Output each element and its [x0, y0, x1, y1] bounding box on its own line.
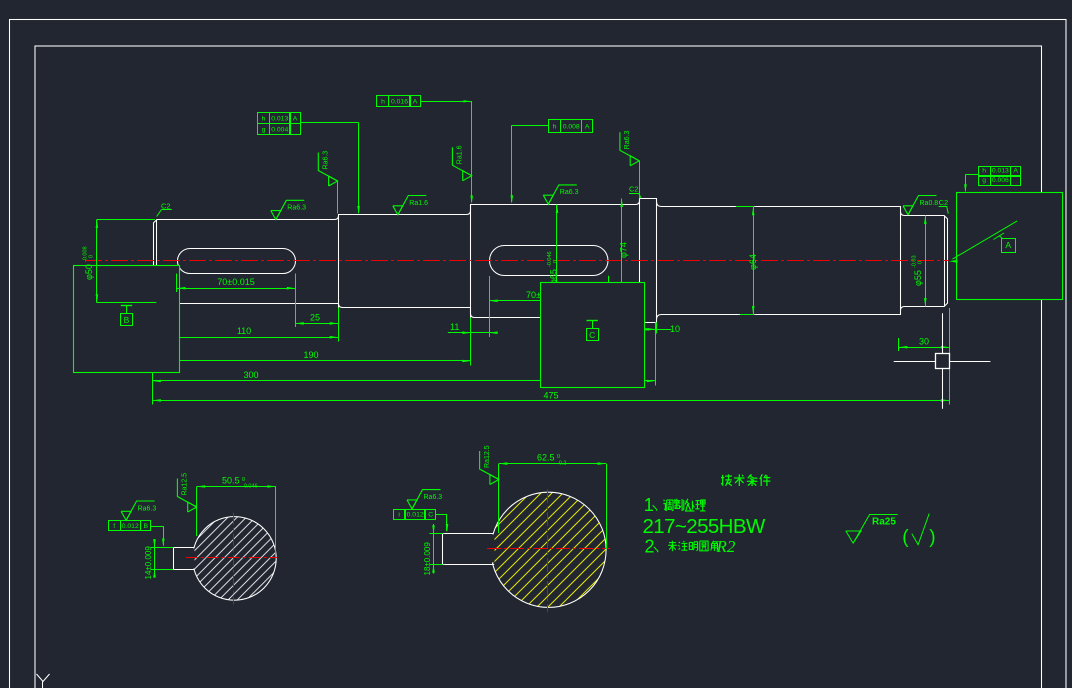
- dim phi50-0.008 (left vertical): [97, 219, 155, 221]
- svg-text:h: h: [381, 99, 385, 106]
- main centerline (red dash-dot): [85, 260, 949, 262]
- svg-text:0.016: 0.016: [391, 99, 408, 106]
- datum box B (left): [74, 266, 180, 373]
- svg-text:18±0.009: 18±0.009: [423, 542, 432, 576]
- svg-text:B: B: [124, 315, 130, 325]
- FCF h 0.013 A / g 0.004: [258, 113, 270, 124]
- section view circle 1 outline: [193, 517, 277, 601]
- svg-text:Ra6.3: Ra6.3: [424, 494, 443, 501]
- svg-text:h: h: [262, 115, 266, 122]
- svg-text:-0.03: -0.03: [912, 255, 918, 268]
- dim phi64: [736, 206, 754, 208]
- svg-text:-0.046: -0.046: [242, 484, 258, 490]
- svg-text:30: 30: [919, 336, 929, 346]
- roughness Ra6.3 section3: [543, 195, 553, 204]
- roughness Ra25 general: [846, 531, 861, 543]
- keyway 1 (rounded slot): [178, 249, 296, 274]
- svg-text:0.012: 0.012: [407, 511, 424, 518]
- svg-text:A: A: [413, 99, 418, 106]
- roughness Ra6.3 step1 rotated: [329, 176, 338, 186]
- svg-text:Ra12.5: Ra12.5: [182, 473, 189, 496]
- svg-text:g: g: [982, 177, 986, 184]
- centerline cross circle 1: [233, 513, 235, 605]
- FCF h 0.013 A / g 0.006 (right): [979, 167, 991, 177]
- svg-text:φ55: φ55: [913, 270, 923, 286]
- step edge S2/S3: [470, 205, 472, 318]
- UCS icon Y label: [37, 674, 50, 682]
- svg-text:f: f: [113, 523, 115, 530]
- keyway notch circle 2: [441, 535, 495, 563]
- svg-text:0.013: 0.013: [271, 115, 288, 122]
- dim 110: [338, 308, 340, 342]
- svg-text:Ra6.3: Ra6.3: [323, 151, 330, 170]
- svg-text:-0.008: -0.008: [83, 246, 89, 262]
- svg-text:0.012: 0.012: [122, 523, 139, 530]
- svg-text:A: A: [585, 124, 590, 131]
- svg-text:A: A: [1005, 240, 1011, 250]
- svg-text:0.004: 0.004: [271, 127, 288, 134]
- svg-text:g: g: [262, 127, 266, 134]
- svg-text:14±0.009: 14±0.009: [144, 546, 153, 580]
- svg-text:62.5: 62.5: [537, 453, 555, 463]
- dim phi74: [621, 199, 623, 323]
- svg-text:C2: C2: [629, 185, 639, 194]
- centerline cross circle 2: [547, 489, 549, 612]
- keyway 2 (rounded slot): [490, 246, 609, 276]
- svg-text:217~255HBW: 217~255HBW: [643, 515, 766, 538]
- svg-text:R2: R2: [716, 537, 736, 556]
- dim phi65: [556, 205, 558, 318]
- svg-text:300: 300: [243, 370, 258, 380]
- svg-text:25: 25: [310, 313, 320, 323]
- section view circle 2 outline: [491, 492, 606, 607]
- roughness Ra1.6 step2 rotated: [463, 171, 472, 181]
- dim 10 collar: [656, 322, 658, 333]
- svg-text:φ74: φ74: [619, 242, 629, 258]
- roughness Ra6.3 circle1: [121, 511, 131, 520]
- step edge S4/S5: [900, 207, 902, 315]
- svg-text:10: 10: [670, 324, 680, 334]
- svg-text:): ): [929, 527, 935, 548]
- dim 475: [152, 386, 154, 405]
- svg-text:A: A: [1013, 167, 1018, 174]
- tech notes title 技术条件: [721, 475, 722, 485]
- crosshair cursor: [894, 361, 936, 363]
- svg-text:h: h: [553, 124, 557, 131]
- svg-text:Ra6.3: Ra6.3: [138, 505, 157, 512]
- svg-text:Ra25: Ra25: [872, 517, 896, 528]
- FCF i 0.012 C circle2: [394, 510, 406, 520]
- svg-text:φ50: φ50: [84, 264, 94, 280]
- svg-text:Ra0.8: Ra0.8: [920, 200, 939, 207]
- dim 300: [152, 373, 154, 386]
- datum box A (right): [957, 193, 1063, 300]
- svg-text:70±0.015: 70±0.015: [217, 277, 254, 287]
- roughness Ra6.3 section1: [271, 211, 281, 220]
- step edge S1/S2: [338, 215, 340, 308]
- svg-text:C: C: [589, 330, 595, 340]
- svg-text:50.5: 50.5: [222, 476, 240, 486]
- datum box C (middle): [541, 283, 645, 388]
- FCF h 0.008 A: [549, 120, 561, 133]
- svg-text:Ra1.6: Ra1.6: [457, 145, 464, 164]
- svg-text:0.013: 0.013: [992, 167, 1009, 174]
- svg-text:110: 110: [237, 326, 251, 336]
- FCF f 0.012 B circle1: [109, 521, 121, 531]
- FCF h 0.016 A: [377, 96, 389, 107]
- svg-text:0: 0: [553, 260, 559, 263]
- svg-text:Ra12.5: Ra12.5: [484, 445, 491, 468]
- dim 14±0.009 circle1: [151, 547, 174, 549]
- svg-text:A: A: [293, 115, 298, 122]
- svg-text:0.008: 0.008: [563, 124, 580, 131]
- svg-text:Ra6.3: Ra6.3: [560, 189, 579, 196]
- svg-text:C: C: [428, 511, 433, 518]
- dim phi55 right: [925, 216, 927, 307]
- roughness Ra0.8 right end: [903, 206, 913, 215]
- svg-text:-0.046: -0.046: [547, 251, 553, 267]
- svg-text:0: 0: [89, 255, 95, 258]
- svg-text:190: 190: [303, 350, 318, 360]
- svg-text:1: 1: [644, 495, 654, 515]
- roughness Ra12.5 circle2 rotated: [490, 475, 499, 485]
- step edge collar/S4: [656, 199, 658, 323]
- svg-text:Ra6.3: Ra6.3: [624, 131, 631, 150]
- keyway notch circle 1: [171, 549, 195, 569]
- svg-text:C2: C2: [939, 198, 949, 207]
- svg-text:Ra1.6: Ra1.6: [409, 200, 428, 207]
- right end chamfer line: [944, 216, 946, 307]
- dim 70±0.2 keyway2: [489, 300, 560, 302]
- svg-text:φ64: φ64: [748, 254, 758, 270]
- svg-text:h: h: [982, 167, 986, 174]
- dim 18±0.009 circle2: [430, 533, 444, 535]
- dim 50.5 circle1: [196, 487, 198, 537]
- svg-text:2: 2: [645, 537, 655, 557]
- svg-text:11: 11: [450, 322, 459, 332]
- left end chamfer line: [156, 220, 158, 304]
- dim 62.5 circle2: [498, 464, 500, 533]
- roughness Ra6.3 circle2: [407, 500, 417, 509]
- dim 190: [470, 318, 472, 366]
- svg-text:0: 0: [242, 477, 245, 483]
- roughness Ra1.6 section2: [393, 206, 403, 215]
- svg-text:Ra6.3: Ra6.3: [287, 205, 306, 212]
- roughness Ra6.3 collar rotated: [630, 156, 639, 166]
- dim 70±0.015 keyway1: [176, 274, 178, 293]
- datum A leader arrow to axis: [953, 221, 1018, 259]
- roughness Ra12.5 circle1 rotated: [188, 502, 197, 512]
- dim 25: [295, 276, 297, 327]
- datum C symbol: [587, 320, 598, 322]
- svg-text:0.006: 0.006: [992, 177, 1009, 184]
- svg-text:475: 475: [543, 391, 558, 401]
- svg-text:0: 0: [918, 261, 924, 264]
- shaft outline (stepped shaft side view): [154, 199, 948, 323]
- dim 11: [470, 318, 472, 337]
- datum A symbol on diagonal: [994, 233, 1005, 240]
- dim 30: [898, 338, 900, 351]
- step edge S3/collar: [639, 199, 641, 323]
- svg-text:-0.2: -0.2: [557, 461, 566, 467]
- svg-text:0: 0: [557, 454, 560, 460]
- svg-text:B: B: [143, 523, 148, 530]
- datum B symbol: [121, 305, 132, 307]
- svg-text:(: (: [902, 527, 909, 548]
